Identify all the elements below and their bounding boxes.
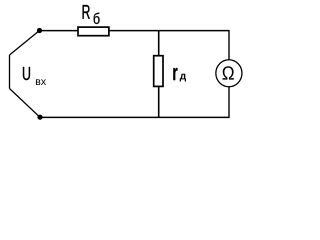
wire: lower-left diagonal lead	[10, 89, 41, 118]
wire: right side vertical from ohmmeter to bottom bus	[228, 86, 230, 117]
wire: right side vertical from top bus to ohmmeter	[228, 31, 230, 60]
label R of R_b	[83, 5, 90, 19]
wire: middle branch vertical through r_d	[158, 31, 160, 118]
label subscript b of R_b	[94, 13, 100, 24]
wire: left input terminal vertical	[9, 55, 11, 89]
wire: top horizontal bus	[39, 30, 230, 32]
junction node: top-left	[37, 28, 42, 33]
wire: upper-left diagonal lead	[10, 31, 40, 56]
label subscript vx of U_vx	[36, 79, 46, 85]
resistor R_b body	[78, 27, 109, 36]
label subscript d of r_d	[180, 74, 186, 82]
wire: bottom horizontal bus	[40, 116, 230, 118]
resistor r_d body	[154, 56, 163, 87]
label Omega inside ohmmeter	[223, 66, 234, 79]
ohmmeter U1 circle	[216, 60, 242, 87]
label U of U_vx	[23, 67, 30, 80]
junction node: bottom-left	[37, 115, 42, 120]
label r of r_d	[173, 68, 177, 80]
